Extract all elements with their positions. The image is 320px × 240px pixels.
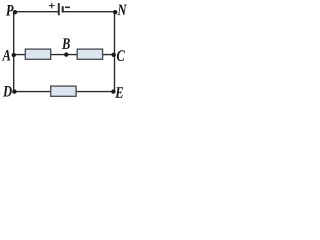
node A junction dot [12,53,16,57]
node B junction dot [64,52,68,56]
node P junction dot [13,10,17,14]
resistor R1 between A and B [25,49,50,59]
label A [2,50,10,61]
label P [6,5,14,15]
wire bottom rail D to E [14,91,115,93]
node C junction dot [112,53,116,57]
wire top rail left segment P to battery [14,11,59,13]
label E [115,87,123,97]
node D junction dot [12,89,16,93]
battery negative short plate [62,6,64,12]
label C [117,50,125,61]
wire left rail P to D [13,12,15,92]
resistor R3 between D and E [51,86,76,96]
node N junction dot [113,10,117,14]
label N [117,5,127,15]
label B [62,38,70,49]
battery plus label [49,3,55,9]
wire right rail N to E [114,12,116,92]
wire middle rail A to C [14,54,115,56]
label D [3,86,12,97]
resistor R2 between B and C [77,49,102,59]
node E junction dot [111,89,115,93]
battery minus label [65,6,70,8]
wire top rail right segment battery to N [63,11,115,13]
battery positive long plate [58,3,60,15]
